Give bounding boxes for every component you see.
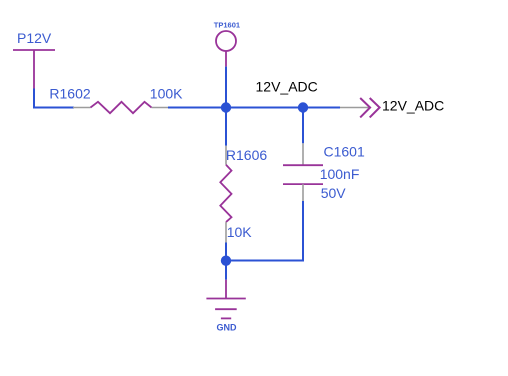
- wire capacitor bottom to junction: [226, 201, 303, 261]
- wire R1606 to bottom junction: [225, 243, 227, 262]
- resistor R1606: [220, 146, 231, 243]
- test point TP1601: [216, 31, 236, 67]
- svg-text:10K: 10K: [227, 224, 253, 240]
- off-page connector chevrons 12V_ADC: [360, 98, 379, 117]
- wire TP1601 to junction: [225, 67, 227, 108]
- wire from P12V to R1602: [34, 89, 74, 108]
- svg-text:50V: 50V: [321, 185, 347, 201]
- svg-text:12V_ADC: 12V_ADC: [256, 79, 318, 95]
- capacitor C1601: [283, 143, 323, 201]
- svg-text:R1602: R1602: [49, 86, 90, 102]
- resistor R1602: [73, 102, 168, 113]
- wire junction to ground: [225, 261, 227, 280]
- wire main horizontal 12V_ADC net: [168, 107, 340, 109]
- svg-text:TP1601: TP1601: [214, 20, 240, 29]
- ground GND: [206, 280, 245, 319]
- wire capacitor top branch: [302, 108, 304, 144]
- wire stub to off-page connector: [340, 107, 370, 109]
- svg-text:GND: GND: [217, 322, 238, 332]
- svg-text:12V_ADC: 12V_ADC: [382, 98, 444, 114]
- junction bottom node: [221, 256, 231, 266]
- svg-text:C1601: C1601: [324, 144, 365, 160]
- svg-text:100K: 100K: [150, 86, 183, 102]
- svg-text:R1606: R1606: [226, 147, 267, 163]
- junction at capacitor branch: [298, 102, 308, 112]
- svg-text:100nF: 100nF: [320, 166, 360, 182]
- junction at R1602 / TP / R1606: [221, 102, 231, 112]
- wire junction down to R1606: [225, 108, 227, 146]
- power symbol P12V: [13, 50, 55, 89]
- svg-text:P12V: P12V: [17, 30, 52, 46]
